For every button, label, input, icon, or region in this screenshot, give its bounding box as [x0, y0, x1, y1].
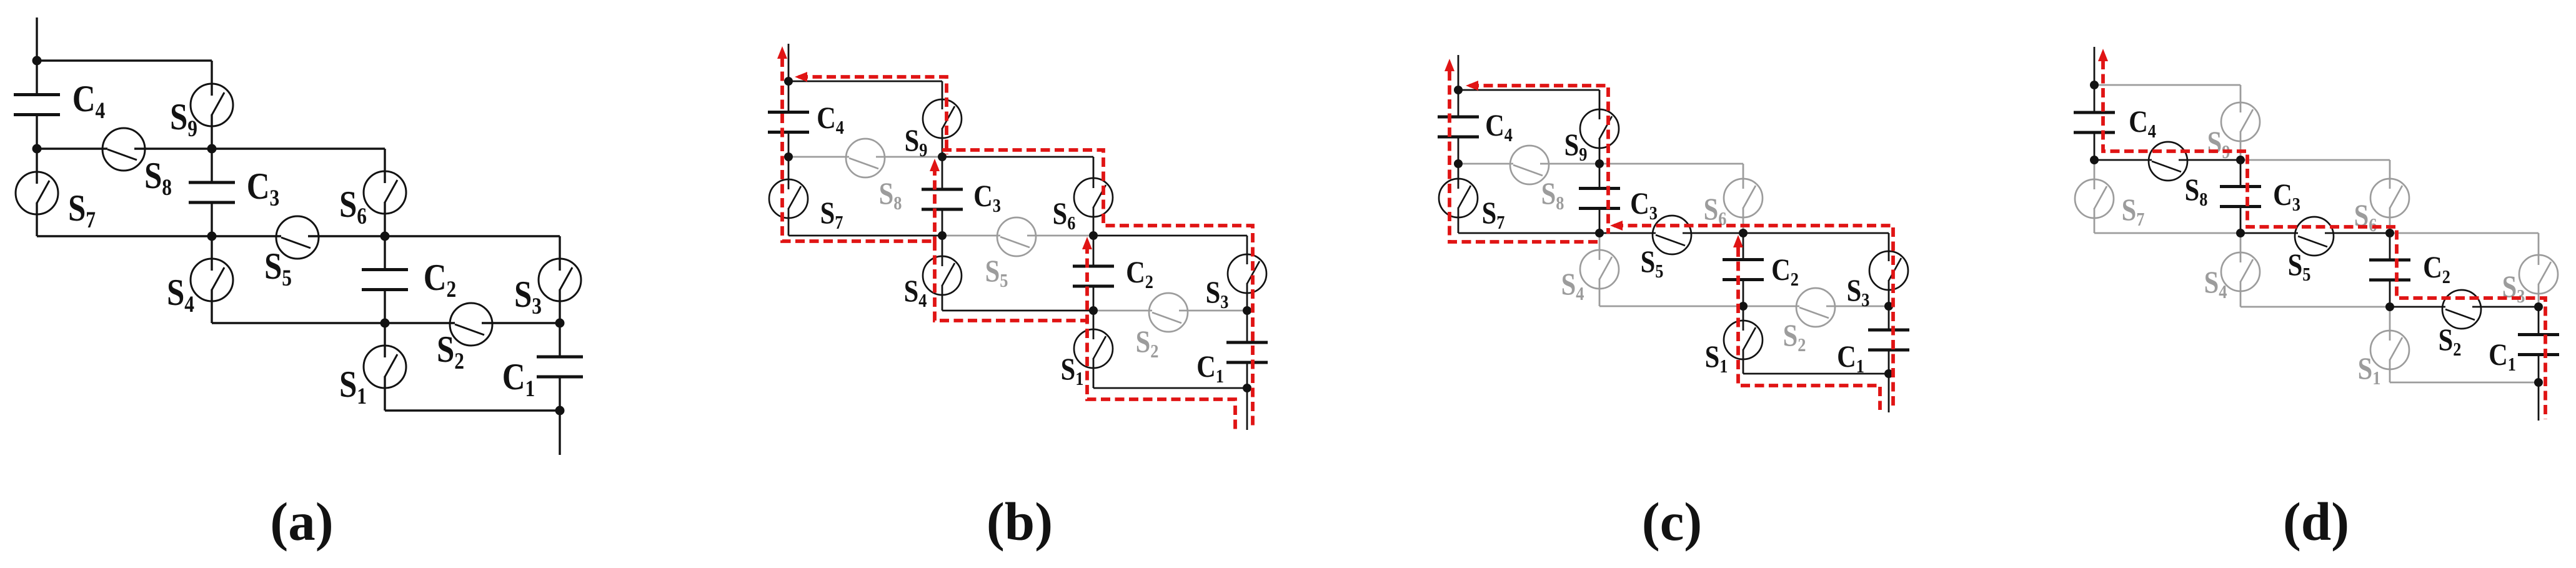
switch S7 (a)	[36, 149, 37, 184]
switch S3 (a)	[559, 236, 560, 271]
switch S1 (c)	[1743, 306, 1744, 331]
svg-text:(b): (b)	[987, 491, 1053, 552]
wire: row5 bottom (c)	[1743, 373, 1889, 375]
red dashed current path (b): loop around C4/S7 cell	[782, 57, 935, 241]
switch S6 (a)	[384, 149, 385, 183]
switch S2 (c)	[1796, 288, 1835, 327]
node C2+ (a)	[380, 232, 390, 241]
wire: row4 right through S2 (b)	[1093, 310, 1152, 312]
node C4- (d)	[2090, 156, 2099, 164]
switch S7 (d)	[2094, 160, 2096, 189]
wire: bottom terminal (c)	[1888, 374, 1890, 412]
node C1- (c)	[1884, 369, 1893, 378]
svg-text:(d): (d)	[2283, 491, 2349, 552]
capacitor C1 (d)	[2538, 307, 2540, 335]
switch S2 (b)	[1149, 293, 1188, 332]
node C2+ (b)	[1089, 231, 1098, 240]
node C2- (a)	[380, 319, 390, 328]
wire: bottom terminal (a)	[559, 411, 560, 455]
node C3+ (d)	[2236, 156, 2245, 164]
wire: top terminal (c)	[1458, 55, 1460, 90]
wire: row3 left below S7 (a)	[37, 235, 212, 237]
wire: row4 right through S2 (c)	[1743, 306, 1799, 307]
red dashed current path (c): S9/C3 right edge of left loop	[1470, 86, 1608, 234]
capacitor C1 (b)	[1246, 311, 1248, 342]
wire: bottom terminal (b)	[1246, 388, 1248, 430]
node C3- (c)	[1595, 229, 1604, 237]
node top (b)	[784, 77, 793, 86]
node C3+ (c)	[1595, 159, 1604, 168]
capacitor C2 (d)	[2389, 233, 2391, 260]
wire: row5 bottom (d)	[2390, 382, 2539, 384]
capacitor C3 (d)	[2240, 160, 2242, 187]
red dashed current path (c): C2/S1 inner branch of right loop	[1738, 247, 1880, 410]
switch S8 (a)	[102, 128, 145, 171]
switch S6 (b)	[1093, 157, 1095, 188]
switch S9 (a)	[211, 61, 212, 96]
wire: top node to S9 column (b)	[788, 81, 942, 82]
switch S1 (d)	[2389, 307, 2391, 341]
wire: bottom terminal (d)	[2538, 382, 2540, 421]
node C1+ (c)	[1884, 302, 1893, 311]
node C2+ (d)	[2385, 229, 2394, 237]
wire: row2 left through S8 (a)	[37, 147, 107, 149]
wire: top terminal (a)	[36, 17, 37, 61]
red arrow up at top terminal (d)	[2098, 49, 2108, 61]
wire: row5 bottom (a)	[385, 409, 560, 411]
capacitor C4 (c)	[1458, 90, 1460, 117]
wire: row3 right to S3 column (c)	[1743, 232, 1889, 234]
node C1+ (a)	[555, 319, 565, 328]
switch S5 (a)	[276, 216, 319, 259]
node C3- (a)	[207, 232, 217, 241]
capacitor C3 (a)	[211, 149, 212, 182]
wire: top node to S9 column (d)	[2094, 84, 2240, 86]
node C4- (c)	[1454, 159, 1463, 168]
switch S7 (b)	[788, 157, 790, 189]
red dashed current path (b): S4 branch to row4	[935, 241, 1089, 321]
wire: row4 left below S4 (a)	[212, 322, 385, 324]
red dashed current path (c): row3 link through S5 and right loop outer	[1614, 226, 1893, 410]
wire: top node to S9 column (c)	[1458, 89, 1599, 91]
switch S3 (d)	[2538, 233, 2540, 265]
wire: row3 middle through S5 (a)	[212, 235, 281, 237]
switch S1 (a)	[384, 323, 385, 357]
red dashed current path (b): C3 branch	[933, 166, 937, 241]
capacitor C1 (a)	[559, 323, 560, 357]
red dashed current path (b): top edge with S9 branch	[798, 77, 947, 154]
svg-text:(a): (a)	[270, 491, 333, 552]
capacitor C3 (c)	[1599, 164, 1601, 189]
capacitor C1 (c)	[1888, 306, 1890, 330]
node C4- (a)	[32, 144, 42, 154]
node top (d)	[2090, 81, 2099, 89]
wire: row2 right to S6 column (a)	[212, 147, 385, 149]
node C1+ (b)	[1243, 306, 1251, 315]
switch S4 (b)	[942, 236, 943, 266]
switch S9 (b)	[942, 81, 943, 109]
wire: row2 right to S6 column (b)	[942, 156, 1093, 158]
switch S5 (b)	[997, 217, 1036, 256]
wire: row2 right to S6 column (d)	[2240, 159, 2390, 161]
node C2- (c)	[1739, 302, 1748, 311]
switch S4 (a)	[211, 236, 212, 271]
switch S9 (d)	[2240, 85, 2242, 112]
capacitor C2 (a)	[384, 236, 385, 270]
svg-text:(c): (c)	[1642, 491, 1703, 552]
red arrow up at top terminal (b)	[777, 46, 787, 59]
capacitor C2 (b)	[1093, 236, 1095, 266]
switch S1 (b)	[1093, 311, 1095, 339]
switch S4 (c)	[1599, 233, 1601, 260]
switch S3 (c)	[1888, 233, 1890, 261]
capacitor C3 (b)	[942, 157, 943, 189]
wire: top node to S9 column (a)	[37, 59, 212, 61]
red arrow up below C2 node (c)	[1733, 235, 1743, 247]
node C1+ (d)	[2534, 302, 2543, 311]
red arrow left on row3 link (c)	[1610, 221, 1623, 231]
node C3- (d)	[2236, 229, 2245, 237]
switch S6 (d)	[2389, 160, 2391, 189]
switch S5 (c)	[1653, 216, 1691, 254]
red dashed current path (b): row2 top edge and S6 branch	[942, 150, 1253, 430]
wire: row3 left below S7 (b)	[788, 235, 942, 237]
capacitor C2 (c)	[1743, 233, 1744, 260]
wire: row4 left below S4 (d)	[2240, 306, 2390, 308]
wire: top terminal (d)	[2094, 47, 2096, 85]
switch S2 (d)	[2442, 290, 2481, 329]
wire: row3 right to S3 column (a)	[385, 235, 560, 237]
wire: row3 right to S3 column (d)	[2390, 232, 2539, 234]
wire: row3 right to S3 column (b)	[1093, 235, 1247, 237]
red arrow left on top edge (c)	[1466, 81, 1478, 91]
red dashed current path (d): staircase through C4,S8,C3,S5,C2,S2,C1	[2103, 60, 2545, 419]
node C2+ (c)	[1739, 229, 1748, 237]
node C2- (b)	[1089, 306, 1098, 315]
wire: row3 middle through S5 (c)	[1599, 232, 1656, 234]
switch S6 (c)	[1743, 164, 1744, 189]
switch S8 (d)	[2149, 142, 2187, 181]
node C3+ (a)	[207, 144, 217, 154]
wire: row4 right through S2 (d)	[2390, 306, 2445, 308]
wire: row3 left below S7 (d)	[2094, 232, 2240, 234]
node C3- (b)	[938, 231, 947, 240]
node C1- (b)	[1243, 384, 1251, 392]
red arrow up below S6 node (b)	[1082, 237, 1092, 249]
red dashed current path (b): C2/S1 branch	[1087, 244, 1235, 430]
wire: row3 left below S7 (c)	[1458, 232, 1599, 234]
red arrow up below S9 node (b)	[930, 159, 940, 171]
switch S3 (b)	[1246, 236, 1248, 264]
wire: row2 left through S8 (b)	[788, 156, 849, 158]
wire: row3 middle through S5 (d)	[2240, 232, 2298, 234]
node C4- (b)	[784, 152, 793, 161]
switch S8 (b)	[846, 139, 885, 177]
capacitor C4 (a)	[36, 61, 37, 95]
wire: top terminal (b)	[788, 44, 790, 81]
switch S7 (c)	[1458, 164, 1460, 189]
switch S2 (a)	[450, 303, 492, 346]
wire: row4 left below S4 (b)	[942, 310, 1093, 312]
red arrow up at top terminal (c)	[1445, 59, 1455, 71]
red dashed current path (c): loop around C4/S7 cell	[1450, 71, 1600, 242]
node C3+ (b)	[938, 152, 947, 161]
switch S5 (d)	[2295, 217, 2334, 256]
node top (a)	[32, 56, 42, 66]
wire: row4 left below S4 (c)	[1599, 306, 1743, 307]
wire: row4 right through S2 (a)	[385, 322, 455, 324]
capacitor C4 (b)	[788, 81, 790, 112]
capacitor C4 (d)	[2094, 85, 2096, 112]
wire: row2 right to S6 column (c)	[1599, 163, 1743, 165]
node C1- (a)	[555, 406, 565, 416]
node top (c)	[1454, 86, 1463, 94]
wire: row3 middle through S5 (b)	[942, 235, 1000, 237]
red arrow left on top edge (b)	[795, 72, 807, 82]
node C2- (d)	[2385, 302, 2394, 311]
node C1- (d)	[2534, 378, 2543, 387]
wire: row2 left through S8 (c)	[1458, 163, 1513, 165]
switch S8 (c)	[1510, 146, 1549, 184]
wire: row5 bottom (b)	[1093, 387, 1247, 389]
switch S4 (d)	[2240, 233, 2242, 262]
switch S9 (c)	[1599, 90, 1601, 119]
wire: row2 left through S8 (d)	[2094, 159, 2152, 161]
